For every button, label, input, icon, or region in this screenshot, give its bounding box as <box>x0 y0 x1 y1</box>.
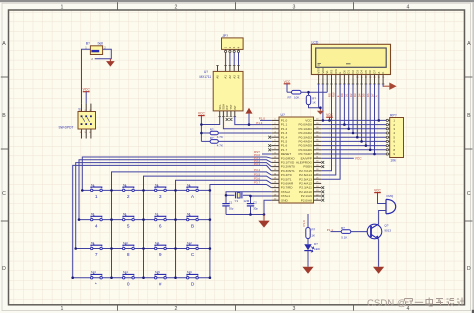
wire U? INT pin to P1.1 <box>235 116 271 124</box>
svg-text:GND: GND <box>281 198 289 202</box>
wire R to LED <box>307 239 309 245</box>
wire LCD D7 to P0.7 <box>374 84 376 154</box>
wire XTAL1 <box>251 196 272 203</box>
wire JP pin1 to U? <box>225 53 227 66</box>
IC U? MX1711 <box>200 66 244 117</box>
svg-text:2: 2 <box>175 306 178 312</box>
wire LCD D5 to P0.5 <box>365 84 367 146</box>
wire P0.0 rail to RP <box>321 124 386 126</box>
svg-text:S13: S13 <box>91 270 96 274</box>
resistor R? 10K (horizontal) <box>287 90 327 99</box>
resistor R? 4.7K (upper) <box>201 128 271 139</box>
power VCC (I2C pullups) <box>198 112 205 142</box>
resistor R? 1K (contrast divider, vertical) <box>306 92 320 108</box>
svg-text:A: A <box>375 95 379 97</box>
wire P0.5 rail to RP <box>321 145 386 147</box>
svg-text:Y1: Y1 <box>235 199 239 203</box>
wire LCD D1 to P0.1 <box>348 84 350 129</box>
svg-text:R?: R? <box>311 227 315 231</box>
wire P0.4 rail to RP <box>321 140 386 142</box>
svg-text:S7: S7 <box>155 212 159 216</box>
wire bus P3.2 row3 <box>76 163 272 249</box>
svg-text:C: C <box>191 252 195 258</box>
svg-text:K: K <box>381 72 385 74</box>
wire EA to VCC label <box>321 157 354 159</box>
pushbutton S11 key 9 <box>155 241 167 258</box>
svg-text:C: C <box>467 191 471 197</box>
svg-text:S2: S2 <box>123 183 127 187</box>
svg-text:S9: S9 <box>91 241 95 245</box>
ground (bell) <box>107 59 114 66</box>
svg-text:P3.7: P3.7 <box>254 181 261 185</box>
wire LCD RW to P2.6 <box>321 84 336 175</box>
LCD1602 display module <box>311 41 390 84</box>
svg-text:R?: R? <box>341 226 345 230</box>
svg-text:U?: U? <box>281 113 285 117</box>
svg-text:S12: S12 <box>187 241 192 245</box>
svg-text:8: 8 <box>127 252 130 258</box>
svg-text:3: 3 <box>293 4 296 10</box>
microcontroller U? (AT89C51 8051, DIP-40) <box>271 113 321 203</box>
wire bus P3.3 row4 <box>73 165 272 277</box>
window chrome bars <box>0 0 474 2</box>
svg-text:P2.0/A8: P2.0/A8 <box>301 198 312 202</box>
svg-text:Q?: Q? <box>384 223 388 227</box>
svg-text:R?: R? <box>210 136 214 140</box>
wire bell pin2 loop <box>95 49 112 59</box>
capacitor C1 30p <box>222 200 234 214</box>
pushbutton S1 key 1 <box>91 183 103 200</box>
resistor R? 5.1K (base) <box>341 226 367 240</box>
pushbutton S15 key # <box>155 270 167 287</box>
resistor pack RP? 10k (SIP-9) <box>386 114 403 163</box>
svg-text:D: D <box>2 266 6 272</box>
svg-text:S16: S16 <box>187 270 192 274</box>
no-connect X marks on MCU pins <box>268 136 324 202</box>
svg-text:P1.1: P1.1 <box>256 121 263 125</box>
pushbutton S13 key * <box>91 270 103 287</box>
svg-text:4.7K: 4.7K <box>217 135 223 139</box>
pushbutton S3 key 3 <box>155 183 167 200</box>
ground (LED) <box>302 267 313 274</box>
wire bus P3.1 row2 <box>79 160 271 220</box>
svg-text:FMQ: FMQ <box>387 194 394 198</box>
wire U? SCL pin to VCC branch <box>201 116 219 124</box>
wire keypad row2 <box>79 219 210 221</box>
wire bus P3.5 col2 <box>144 176 272 278</box>
wire collector to buzzer <box>379 211 386 225</box>
svg-text:3: 3 <box>159 194 162 200</box>
svg-text:B: B <box>191 223 194 229</box>
4x4 keypad buttons <box>91 183 199 288</box>
svg-text:S15: S15 <box>155 270 160 274</box>
wire JP pin2 to U? <box>229 53 231 66</box>
svg-text:30p: 30p <box>253 206 258 210</box>
pushbutton S9 key 7 <box>91 241 103 258</box>
svg-text:7: 7 <box>95 252 98 258</box>
power VCC (buzzer) <box>374 189 386 204</box>
wire P1.0 net stub <box>260 119 271 121</box>
junction dots pullups <box>200 123 203 134</box>
pushbutton S6 key 5 <box>123 212 135 229</box>
power VCC (contrast divider) <box>284 80 291 92</box>
svg-text:0: 0 <box>127 281 130 287</box>
buzzer B? (bell) <box>85 41 106 61</box>
svg-text:S6: S6 <box>123 212 127 216</box>
svg-text:4.7K: 4.7K <box>217 143 223 147</box>
pushbutton S2 key 2 <box>123 183 135 200</box>
svg-text:1: 1 <box>61 4 64 10</box>
svg-text:1K: 1K <box>311 233 315 237</box>
svg-text:10k: 10k <box>390 158 396 162</box>
wire LCD D4 to P0.4 <box>361 84 363 141</box>
svg-text:4: 4 <box>95 223 98 229</box>
svg-text:S4: S4 <box>187 183 191 187</box>
svg-text:MX1711: MX1711 <box>200 75 212 79</box>
svg-text:B: B <box>2 113 6 119</box>
svg-text:SW-DPDT: SW-DPDT <box>59 126 74 130</box>
svg-text:C2: C2 <box>253 200 257 204</box>
buzzer FMQ <box>386 194 396 214</box>
ground (emitter) <box>373 267 384 274</box>
wire P0.2 rail to RP <box>321 132 386 134</box>
wire bus P3.7 col4 <box>210 185 271 278</box>
svg-text:3: 3 <box>293 306 296 312</box>
pushbutton S12 key C <box>187 241 199 258</box>
svg-text:A0: A0 <box>216 75 220 79</box>
svg-text:S11: S11 <box>155 241 160 245</box>
svg-text:4: 4 <box>407 306 410 312</box>
svg-text:1K: 1K <box>312 101 316 105</box>
svg-text:LED: LED <box>314 247 321 251</box>
junction dots crystal <box>225 194 266 216</box>
wire emitter to ground <box>378 239 380 267</box>
svg-text:A: A <box>2 41 6 47</box>
connector JP? (4-pin) <box>222 34 244 53</box>
wire keypad row1 <box>82 189 210 191</box>
wire LCD VSS to ground <box>319 84 321 108</box>
wire LED branch top <box>307 214 309 228</box>
resistor R? 4.7K (lower) <box>201 136 271 147</box>
wire XTAL2 <box>226 192 271 203</box>
ground (MCU/crystal) <box>258 215 269 228</box>
svg-text:B: B <box>467 113 471 119</box>
svg-text:P3.3: P3.3 <box>254 162 261 166</box>
pushbutton S16 key D <box>187 270 199 287</box>
svg-text:R?: R? <box>210 128 214 132</box>
svg-text:A4: A4 <box>237 75 241 79</box>
wire LCD VL contrast <box>326 84 328 92</box>
LED D? <box>304 242 320 252</box>
svg-text:CSDN @: CSDN @ <box>367 298 407 309</box>
wire bus P3.4 col1 <box>112 172 272 278</box>
power port arrow VCC (up) <box>246 108 253 125</box>
switch S? SW-DPDT <box>59 104 96 139</box>
wire P0.6 rail to RP <box>321 149 386 151</box>
svg-text:30p: 30p <box>229 206 234 210</box>
wire P0.1 rail to RP <box>321 128 386 130</box>
pushbutton S7 key 6 <box>155 212 167 229</box>
crystal Y1 12M <box>226 192 251 203</box>
wire crystal bottom rail <box>226 214 264 216</box>
junction dots LCD/P0 area <box>322 119 381 155</box>
red net labels on LCD wires <box>327 92 378 97</box>
svg-text:2: 2 <box>175 4 178 10</box>
svg-text:1: 1 <box>61 306 64 312</box>
wire LED to ground <box>307 251 309 267</box>
transistor Q? 9013 (NPN) <box>367 223 391 239</box>
pushbutton S5 key 4 <box>91 212 103 229</box>
svg-text:1: 1 <box>95 194 98 200</box>
svg-text:S10: S10 <box>123 241 128 245</box>
svg-text:R?: R? <box>288 96 292 100</box>
svg-text:D: D <box>467 266 471 272</box>
wire bell pin1 to switch <box>82 49 91 103</box>
pushbutton S10 key 8 <box>123 241 135 258</box>
svg-text:9: 9 <box>159 252 162 258</box>
wire LCD E to P2.5 <box>321 84 340 179</box>
svg-text:S3: S3 <box>155 183 159 187</box>
svg-text:12M: 12M <box>243 199 249 203</box>
svg-text:S8: S8 <box>187 212 191 216</box>
wire LCD D0 to P0.0 <box>343 84 345 125</box>
wire MCU GND pin down <box>264 200 271 214</box>
svg-text:5.1K: 5.1K <box>341 235 347 239</box>
wire LCD VDD to VCC rail <box>322 84 324 120</box>
wire LCD D6 to P0.6 <box>369 84 371 150</box>
svg-text:VCC: VCC <box>355 157 362 161</box>
wire JP pin4 to U? <box>238 53 240 66</box>
svg-text:S14: S14 <box>123 270 128 274</box>
svg-text:S5: S5 <box>91 212 95 216</box>
wire keypad row4 <box>73 277 210 279</box>
svg-text:D?: D? <box>314 242 318 246</box>
svg-text:10K: 10K <box>294 96 299 100</box>
wire keypad row3 <box>76 248 210 250</box>
svg-text:INT: INT <box>233 105 237 110</box>
wire LCD D3 to P0.3 <box>356 84 358 137</box>
junction dots reset <box>307 91 322 109</box>
wire base input <box>331 231 342 233</box>
svg-text:A: A <box>467 41 471 47</box>
svg-text:6: 6 <box>159 223 162 229</box>
pushbutton S14 key 0 <box>123 270 135 287</box>
svg-text:RST: RST <box>254 150 260 154</box>
capacitor C2 30p <box>247 200 259 214</box>
wire JP pin3 to U? <box>233 53 235 66</box>
wire LCD A backlight to VCC rail <box>378 84 380 120</box>
wire LCD D2 to P0.2 <box>352 84 354 133</box>
svg-text:U?: U? <box>204 70 208 74</box>
wire bus P3.6 col3 <box>176 180 272 277</box>
no-connect X marks U? pins <box>226 118 233 121</box>
junction dots keypad <box>71 189 211 279</box>
svg-text:D: D <box>191 281 195 287</box>
power VCC (switch) <box>83 88 91 104</box>
wire RESET stub + RST label <box>262 153 271 155</box>
wire U? SDA pin to P1.2 <box>223 116 271 128</box>
svg-text:S1: S1 <box>91 183 95 187</box>
net labels P3.0-P3.7 <box>254 153 261 185</box>
svg-text:#: # <box>159 281 162 287</box>
wire LCD K to ground arrow <box>382 84 385 86</box>
svg-text:4: 4 <box>407 4 410 10</box>
wire VCC rail P0 pullup rail <box>321 119 386 121</box>
svg-text:P1.0: P1.0 <box>302 220 306 227</box>
power VCC (P0 pullup rail) <box>326 113 333 120</box>
resistor R? 1K (vertical) <box>306 227 316 238</box>
pushbutton S4 key A <box>187 183 199 200</box>
wire LCD RS to P2.7 <box>321 84 331 171</box>
svg-text:*: * <box>95 281 97 287</box>
pushbutton S8 key B <box>187 212 199 229</box>
power port arrow GND (LCD K) <box>384 85 389 87</box>
svg-text:2: 2 <box>127 194 130 200</box>
wire P0.3 rail to RP <box>321 136 386 138</box>
svg-text:9013: 9013 <box>384 229 391 233</box>
svg-text:bell: bell <box>98 41 104 45</box>
svg-text:C1: C1 <box>229 200 233 204</box>
svg-text:C: C <box>2 191 6 197</box>
wire P0.7 rail to RP <box>321 153 386 155</box>
svg-text:B?: B? <box>86 42 90 46</box>
svg-text:5: 5 <box>127 223 130 229</box>
power port arrow GND (VSS/reset button) <box>317 108 324 115</box>
wire bus P3.0 row1 <box>82 157 271 190</box>
